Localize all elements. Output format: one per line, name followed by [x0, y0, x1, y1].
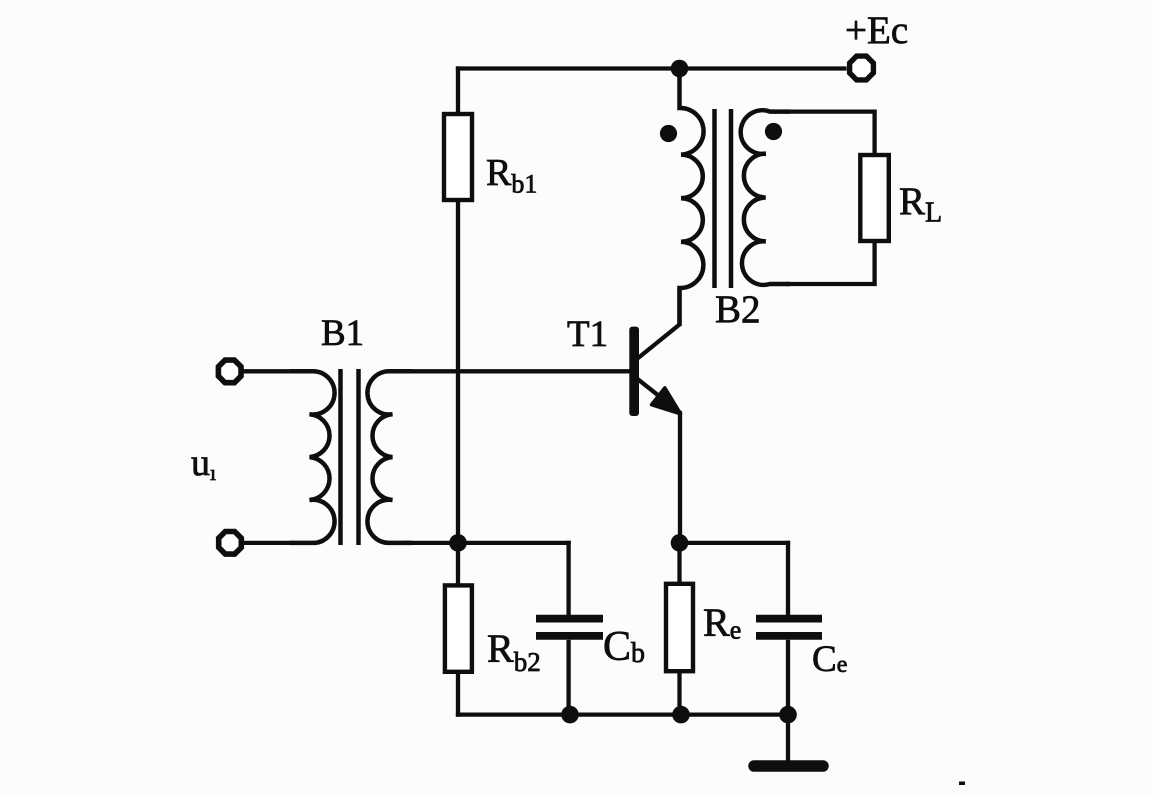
- capacitor Ce plates: [756, 619, 822, 636]
- transformer B1 core: [341, 369, 359, 545]
- resistor Re: [666, 584, 693, 671]
- ground symbol: [754, 760, 823, 772]
- node junction top of collector branch: [671, 60, 689, 78]
- svg-text:Rb2: Rb2: [487, 626, 541, 677]
- svg-text:B1: B1: [321, 313, 364, 354]
- transformer B2 core: [715, 109, 732, 288]
- transformer B2 primary winding: [680, 69, 704, 327]
- wire RL bottom to B2 secondary bottom: [785, 241, 875, 284]
- wire Rb1 top lead: [456, 66, 460, 114]
- svg-text:B2: B2: [715, 288, 761, 331]
- wire Ce top lead: [786, 541, 790, 615]
- wire top power rail from Rb1 top to +Ec terminal: [456, 66, 847, 70]
- wire B2 secondary top to RL: [785, 112, 875, 155]
- phase dot B2 primary: [660, 125, 677, 142]
- transistor T1 base bar: [629, 327, 639, 416]
- wire Re top lead: [677, 543, 681, 584]
- svg-text:Cb: Cb: [603, 624, 645, 670]
- transformer B2 secondary winding: [741, 110, 790, 285]
- wire Rb2 bottom lead: [456, 672, 460, 717]
- node junction Re at ground rail: [672, 706, 690, 724]
- capacitor Cb plates: [536, 619, 603, 636]
- wire input bottom lead: [243, 541, 292, 545]
- transistor T1 emitter lead: [638, 379, 681, 543]
- resistor RL: [860, 155, 889, 241]
- resistor Rb2: [445, 585, 472, 671]
- svg-text:+Ec: +Ec: [845, 9, 908, 52]
- svg-text:Rb1: Rb1: [486, 152, 537, 199]
- wire bottom ground rail: [456, 712, 788, 716]
- svg-text:uı: uı: [191, 442, 216, 485]
- transformer B1 primary winding: [290, 371, 335, 543]
- wire emitter node to Ce branch corner: [680, 541, 791, 545]
- node junction Cb at ground rail: [561, 706, 579, 724]
- svg-text:Re: Re: [703, 600, 741, 645]
- node junction base-divider (Rb1/Rb2/B1 return): [449, 534, 467, 552]
- wire Cb top lead: [566, 541, 570, 615]
- wire Cb bottom lead: [566, 640, 570, 715]
- wire input top lead: [243, 369, 292, 373]
- phase dot B2 secondary: [765, 123, 782, 140]
- wire Rb2 top lead: [456, 543, 460, 586]
- input terminal top: [218, 360, 241, 383]
- transistor T1 emitter arrowhead: [652, 388, 681, 414]
- svg-text:RL: RL: [899, 180, 942, 229]
- svg-text:T1: T1: [567, 314, 608, 355]
- wire B1 secondary bottom to divider node and Cb branch corner: [404, 541, 571, 545]
- node junction Ce at ground rail: [779, 706, 797, 724]
- resistor Rb1: [444, 114, 472, 200]
- +Ec terminal circle: [850, 56, 874, 80]
- node junction emitter (Re/Ce tap): [671, 534, 689, 552]
- wire base net from B1 secondary to transistor base (crosses Rb1 branch): [404, 369, 630, 373]
- transformer B1 secondary winding: [367, 371, 412, 543]
- wire Rb1 bottom lead down to base-divider node (crosses base wire): [456, 200, 460, 543]
- wire ground lead: [786, 715, 790, 761]
- transistor T1 collector lead: [638, 288, 680, 359]
- stray ink speck: [959, 782, 965, 786]
- input terminal bottom: [219, 532, 242, 555]
- wire Ce bottom lead: [786, 640, 790, 715]
- wire Re bottom lead: [677, 671, 681, 714]
- svg-text:Ce: Ce: [812, 639, 847, 680]
